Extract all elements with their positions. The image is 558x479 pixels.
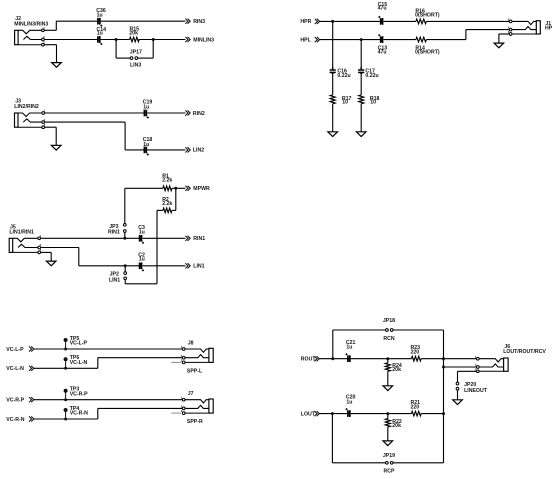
resistor R16 0(SHORT): [416, 19, 427, 24]
svg-text:RCN: RCN: [383, 336, 394, 342]
node LOUT junction: [331, 412, 334, 415]
svg-text:RIN2: RIN2: [193, 111, 205, 117]
node RIN1 junction: [123, 237, 126, 240]
capacitor C2 1u: [139, 263, 141, 270]
test point TP6: [64, 367, 67, 370]
svg-text:3: 3: [43, 40, 45, 44]
svg-text:20k: 20k: [392, 367, 401, 373]
svg-text:LINEOUT: LINEOUT: [464, 388, 488, 394]
svg-text:LOUT/ROUT/RCV: LOUT/ROUT/RCV: [503, 349, 546, 355]
wire J8 sleeve stub: [171, 361, 181, 363]
test point TP3: [64, 398, 67, 401]
svg-text:LIN2/RIN2: LIN2/RIN2: [14, 104, 39, 110]
svg-text:VC-L-P: VC-L-P: [70, 341, 88, 347]
svg-text:0.22u: 0.22u: [365, 73, 378, 79]
svg-text:2: 2: [43, 35, 45, 39]
wire J7 sleeve stub: [171, 412, 181, 414]
wire C16 branch: [332, 21, 334, 70]
wire J3 ring step: [45, 121, 126, 123]
svg-text:47u: 47u: [378, 6, 387, 12]
port LIN1: [185, 263, 190, 268]
port RIN3: [185, 19, 190, 24]
wire C14 to R15: [101, 39, 130, 41]
connector J8 SPP-L jack: [209, 348, 213, 362]
jumper JP17 LIN3: [130, 57, 133, 60]
resistor R18 10: [359, 95, 364, 104]
node HPR junction: [331, 20, 334, 23]
svg-text:1u: 1u: [97, 31, 103, 37]
svg-text:1u: 1u: [346, 345, 352, 351]
port RIN1: [185, 236, 190, 241]
svg-text:VC-L-N: VC-L-N: [70, 360, 88, 366]
wire HPL to C13: [320, 39, 381, 41]
jumper JP18 RCN loop: [332, 330, 334, 359]
port LIN2: [185, 147, 190, 152]
wire J2 tip to riser: [44, 29, 56, 31]
svg-text:0(SHORT): 0(SHORT): [415, 50, 440, 56]
svg-text:10: 10: [370, 100, 376, 106]
svg-text:LIN1/RIN1: LIN1/RIN1: [9, 229, 34, 235]
wire J6 ring to bus: [444, 366, 477, 368]
test point TP4: [64, 418, 67, 421]
svg-text:2.2k: 2.2k: [162, 177, 172, 183]
wire R16 to HP jack tip: [426, 20, 509, 22]
node LIN1 junction: [124, 264, 127, 267]
jumper JP3 RIN1: [124, 232, 126, 238]
svg-text:LIN1: LIN1: [193, 264, 204, 270]
wire J5 tip to C3: [41, 237, 140, 239]
wire ROUT to C21: [319, 358, 347, 360]
jumper JP20 LINEOUT: [456, 382, 459, 385]
resistor R24 20k branch: [387, 359, 389, 363]
wire J3 tip to C19: [45, 112, 145, 114]
wire C2 to port LIN1: [142, 265, 185, 267]
wire R2 to MPWR node: [172, 209, 176, 211]
svg-text:SPP-R: SPP-R: [187, 419, 203, 425]
svg-text:VC-R-N: VC-R-N: [70, 411, 88, 417]
wire C17 branch: [360, 40, 362, 70]
svg-text:47u: 47u: [378, 50, 387, 56]
wire J2 ring to C14: [44, 39, 97, 41]
svg-text:RCP: RCP: [384, 469, 395, 475]
ground C16 chain: [328, 132, 338, 137]
wire C13 to R14: [383, 39, 416, 41]
capacitor C21 1u: [347, 355, 349, 362]
resistor R14 0(SHORT): [416, 37, 427, 42]
svg-text:J8: J8: [188, 340, 194, 346]
wire J3 sleeve to ground: [45, 126, 57, 128]
resistor R17 10: [330, 95, 335, 104]
ground J5: [46, 261, 56, 266]
resistor R23 220: [411, 356, 421, 361]
connector J2 MINLIN3/RIN3 jack: [15, 30, 19, 44]
node R24 top junction: [386, 357, 389, 360]
svg-text:2: 2: [44, 118, 46, 122]
wire RCN vertical bus: [443, 330, 445, 463]
connector J5 LIN1/RIN1 jack: [9, 238, 13, 252]
port MINLIN3: [185, 37, 190, 42]
wire C18 to port LIN2: [147, 149, 185, 151]
svg-text:3: 3: [40, 248, 42, 252]
port RIN2: [185, 110, 190, 115]
capacitor C3 1u: [139, 235, 141, 242]
wire J5 ring step to LIN1: [41, 247, 79, 249]
wire JP3 to MPWR rail: [124, 188, 126, 223]
node ROUT junction: [331, 357, 334, 360]
svg-text:0(SHORT): 0(SHORT): [415, 13, 440, 19]
capacitor C20 1u: [347, 410, 349, 417]
resistor R15 20k: [130, 37, 140, 42]
wire R2 left leg: [157, 209, 163, 211]
svg-text:1u: 1u: [97, 13, 103, 19]
svg-text:2.2k: 2.2k: [162, 201, 172, 207]
node MPWR junction: [174, 187, 177, 190]
svg-text:220: 220: [411, 404, 420, 410]
node R21 bus junction: [442, 412, 445, 415]
wire VC-R-N step to jack ring: [34, 418, 98, 420]
svg-text:LIN3: LIN3: [130, 62, 141, 68]
test point TP5: [64, 348, 67, 351]
svg-text:220: 220: [411, 349, 420, 355]
svg-text:VC-R-P: VC-R-P: [70, 391, 88, 397]
wire JP2 loop to R2: [124, 280, 126, 284]
svg-text:1: 1: [40, 234, 42, 238]
node MINLIN3 right junction: [152, 38, 155, 41]
svg-text:VC-R-N: VC-R-N: [6, 417, 24, 423]
wire J6 sleeve to JP20: [458, 370, 477, 372]
svg-text:JP17: JP17: [130, 50, 142, 56]
svg-text:HPR: HPR: [300, 19, 311, 25]
wire R23 to J6 tip: [421, 358, 476, 360]
wire JP17 right leg: [138, 57, 154, 59]
svg-text:JP18: JP18: [383, 318, 395, 324]
svg-text:0.22u: 0.22u: [337, 73, 350, 79]
connector J3 LIN2/RIN2 jack: [15, 113, 19, 127]
capacitor C16 0.22u: [330, 69, 336, 71]
svg-text:HPL: HPL: [300, 37, 311, 43]
wire JP17 left leg: [115, 40, 117, 59]
wire riser to RIN3 rail: [55, 21, 57, 30]
wire C21 to R23: [351, 358, 412, 360]
svg-text:2: 2: [40, 243, 42, 247]
resistor R2 2.2k: [163, 208, 172, 213]
wire C19 to port RIN2: [147, 112, 185, 114]
capacitor C15 47u: [380, 18, 382, 25]
ground R22: [383, 441, 393, 446]
wire HP sleeve to ground: [499, 33, 509, 35]
resistor R1 2.2k: [163, 186, 172, 191]
wire R15 to port: [138, 39, 185, 41]
svg-text:RIN1: RIN1: [108, 229, 120, 235]
capacitor C14 1u: [97, 36, 99, 43]
wire C17 to R18: [360, 73, 362, 95]
svg-text:1u: 1u: [346, 399, 352, 405]
wire R18 to ground: [360, 104, 362, 132]
svg-text:LIN2: LIN2: [193, 148, 204, 154]
svg-text:RIN1: RIN1: [193, 236, 205, 242]
resistor R22 20k branch: [387, 414, 389, 419]
svg-text:RIN3: RIN3: [193, 19, 205, 25]
wire HPR to C15: [320, 20, 381, 22]
ground R24: [383, 386, 393, 391]
wire R17 to ground: [332, 104, 334, 132]
svg-text:VC-L-N: VC-L-N: [6, 366, 24, 372]
ground C17 chain: [356, 132, 366, 137]
port MPWR: [185, 186, 190, 191]
node MINLIN3 left junction: [115, 38, 118, 41]
wire C3 to port RIN1: [142, 237, 185, 239]
svg-text:MPWR: MPWR: [193, 186, 210, 192]
svg-text:VC-L-P: VC-L-P: [6, 347, 24, 353]
svg-text:1u: 1u: [143, 142, 149, 148]
svg-text:JP19: JP19: [383, 453, 395, 459]
wire LOUT to C20: [319, 413, 347, 415]
ground HP jack: [494, 43, 504, 48]
svg-text:3: 3: [44, 123, 46, 127]
svg-text:MINLIN3: MINLIN3: [193, 38, 214, 44]
svg-text:20k: 20k: [392, 423, 401, 429]
svg-text:HP: HP: [545, 26, 553, 32]
svg-text:1u: 1u: [139, 257, 145, 263]
jumper JP2 LIN1: [124, 266, 126, 272]
wire VC-R-P to jack J7: [34, 399, 183, 401]
wire JP20 to ground: [457, 390, 459, 400]
ground J3: [51, 145, 61, 150]
svg-text:20k: 20k: [129, 30, 138, 36]
connector J7 SPP-R jack: [209, 399, 213, 413]
connector J6 LOUT/ROUT/RCV jack: [504, 358, 509, 371]
node HPL junction: [360, 38, 363, 41]
wire J2 sleeve to ground: [44, 44, 56, 46]
svg-text:1: 1: [44, 109, 46, 113]
wire J5 sleeve to ground: [41, 251, 52, 253]
wire VC-L-P to jack J8: [34, 348, 183, 350]
ground JP20: [453, 400, 463, 405]
wire C15 to R16: [383, 20, 416, 22]
svg-text:SPP-L: SPP-L: [187, 368, 203, 374]
capacitor C18 1u: [143, 147, 145, 154]
wire R1 to port MPWR: [172, 187, 186, 189]
wire R21 to bus: [421, 413, 443, 415]
svg-text:MINLIN3/RIN3: MINLIN3/RIN3: [14, 21, 48, 27]
capacitor C19 1u: [143, 110, 145, 117]
node J6 tip junction: [442, 357, 445, 360]
capacitor C36 1u: [97, 18, 99, 25]
svg-text:LOUT: LOUT: [301, 411, 316, 417]
wire VC-L-N step to jack ring: [34, 367, 98, 369]
connector J1 HP jack: [536, 21, 540, 34]
svg-text:LIN1: LIN1: [109, 277, 120, 283]
svg-text:J7: J7: [188, 391, 194, 397]
wire C20 to R21: [351, 413, 412, 415]
capacitor C13 47u: [380, 36, 382, 43]
node R22 top junction: [386, 412, 389, 415]
svg-text:1u: 1u: [139, 229, 145, 235]
svg-text:1u: 1u: [143, 105, 149, 111]
wire R14 to HP jack ring: [426, 39, 466, 41]
resistor R21 220: [411, 411, 421, 416]
node ring tee: [442, 366, 445, 369]
svg-text:VC-R-P: VC-R-P: [6, 398, 24, 404]
wire C16 to R17: [332, 73, 334, 95]
capacitor C17 0.22u: [358, 69, 364, 71]
svg-text:ROUT: ROUT: [301, 357, 317, 363]
svg-text:10: 10: [342, 100, 348, 106]
wire RIN3 rail right: [101, 20, 186, 22]
jumper JP19 RCP loop: [331, 414, 333, 463]
wire RIN3 rail left: [56, 20, 97, 22]
ground J2: [52, 63, 62, 68]
